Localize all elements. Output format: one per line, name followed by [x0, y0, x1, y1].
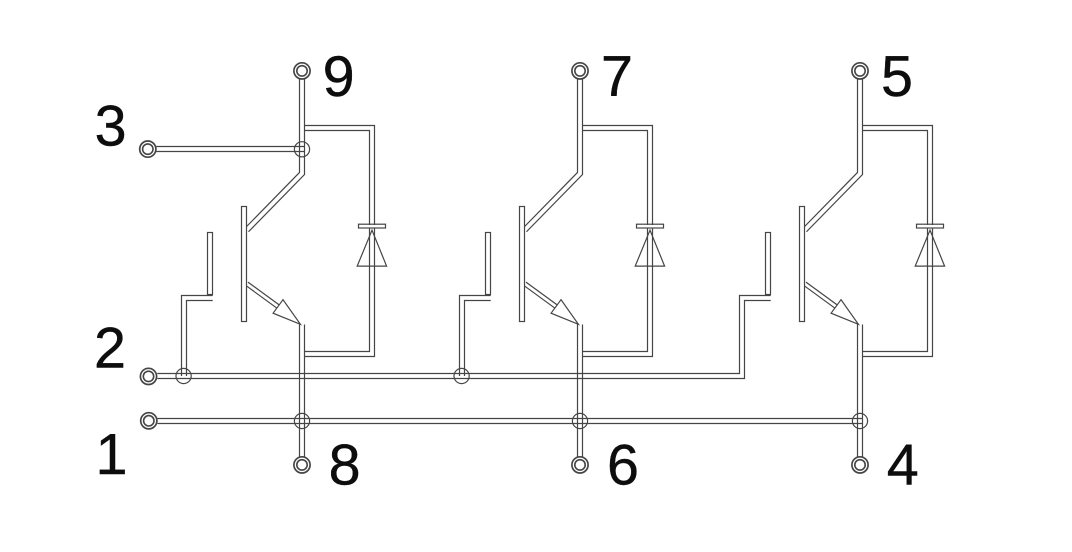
svg-text:2: 2 — [94, 316, 126, 380]
svg-text:8: 8 — [329, 434, 361, 498]
svg-text:5: 5 — [881, 45, 913, 109]
svg-text:4: 4 — [887, 434, 919, 498]
svg-text:1: 1 — [96, 423, 128, 487]
svg-text:9: 9 — [323, 45, 355, 109]
svg-text:6: 6 — [607, 434, 639, 498]
svg-text:3: 3 — [95, 95, 127, 159]
svg-text:7: 7 — [601, 45, 633, 109]
